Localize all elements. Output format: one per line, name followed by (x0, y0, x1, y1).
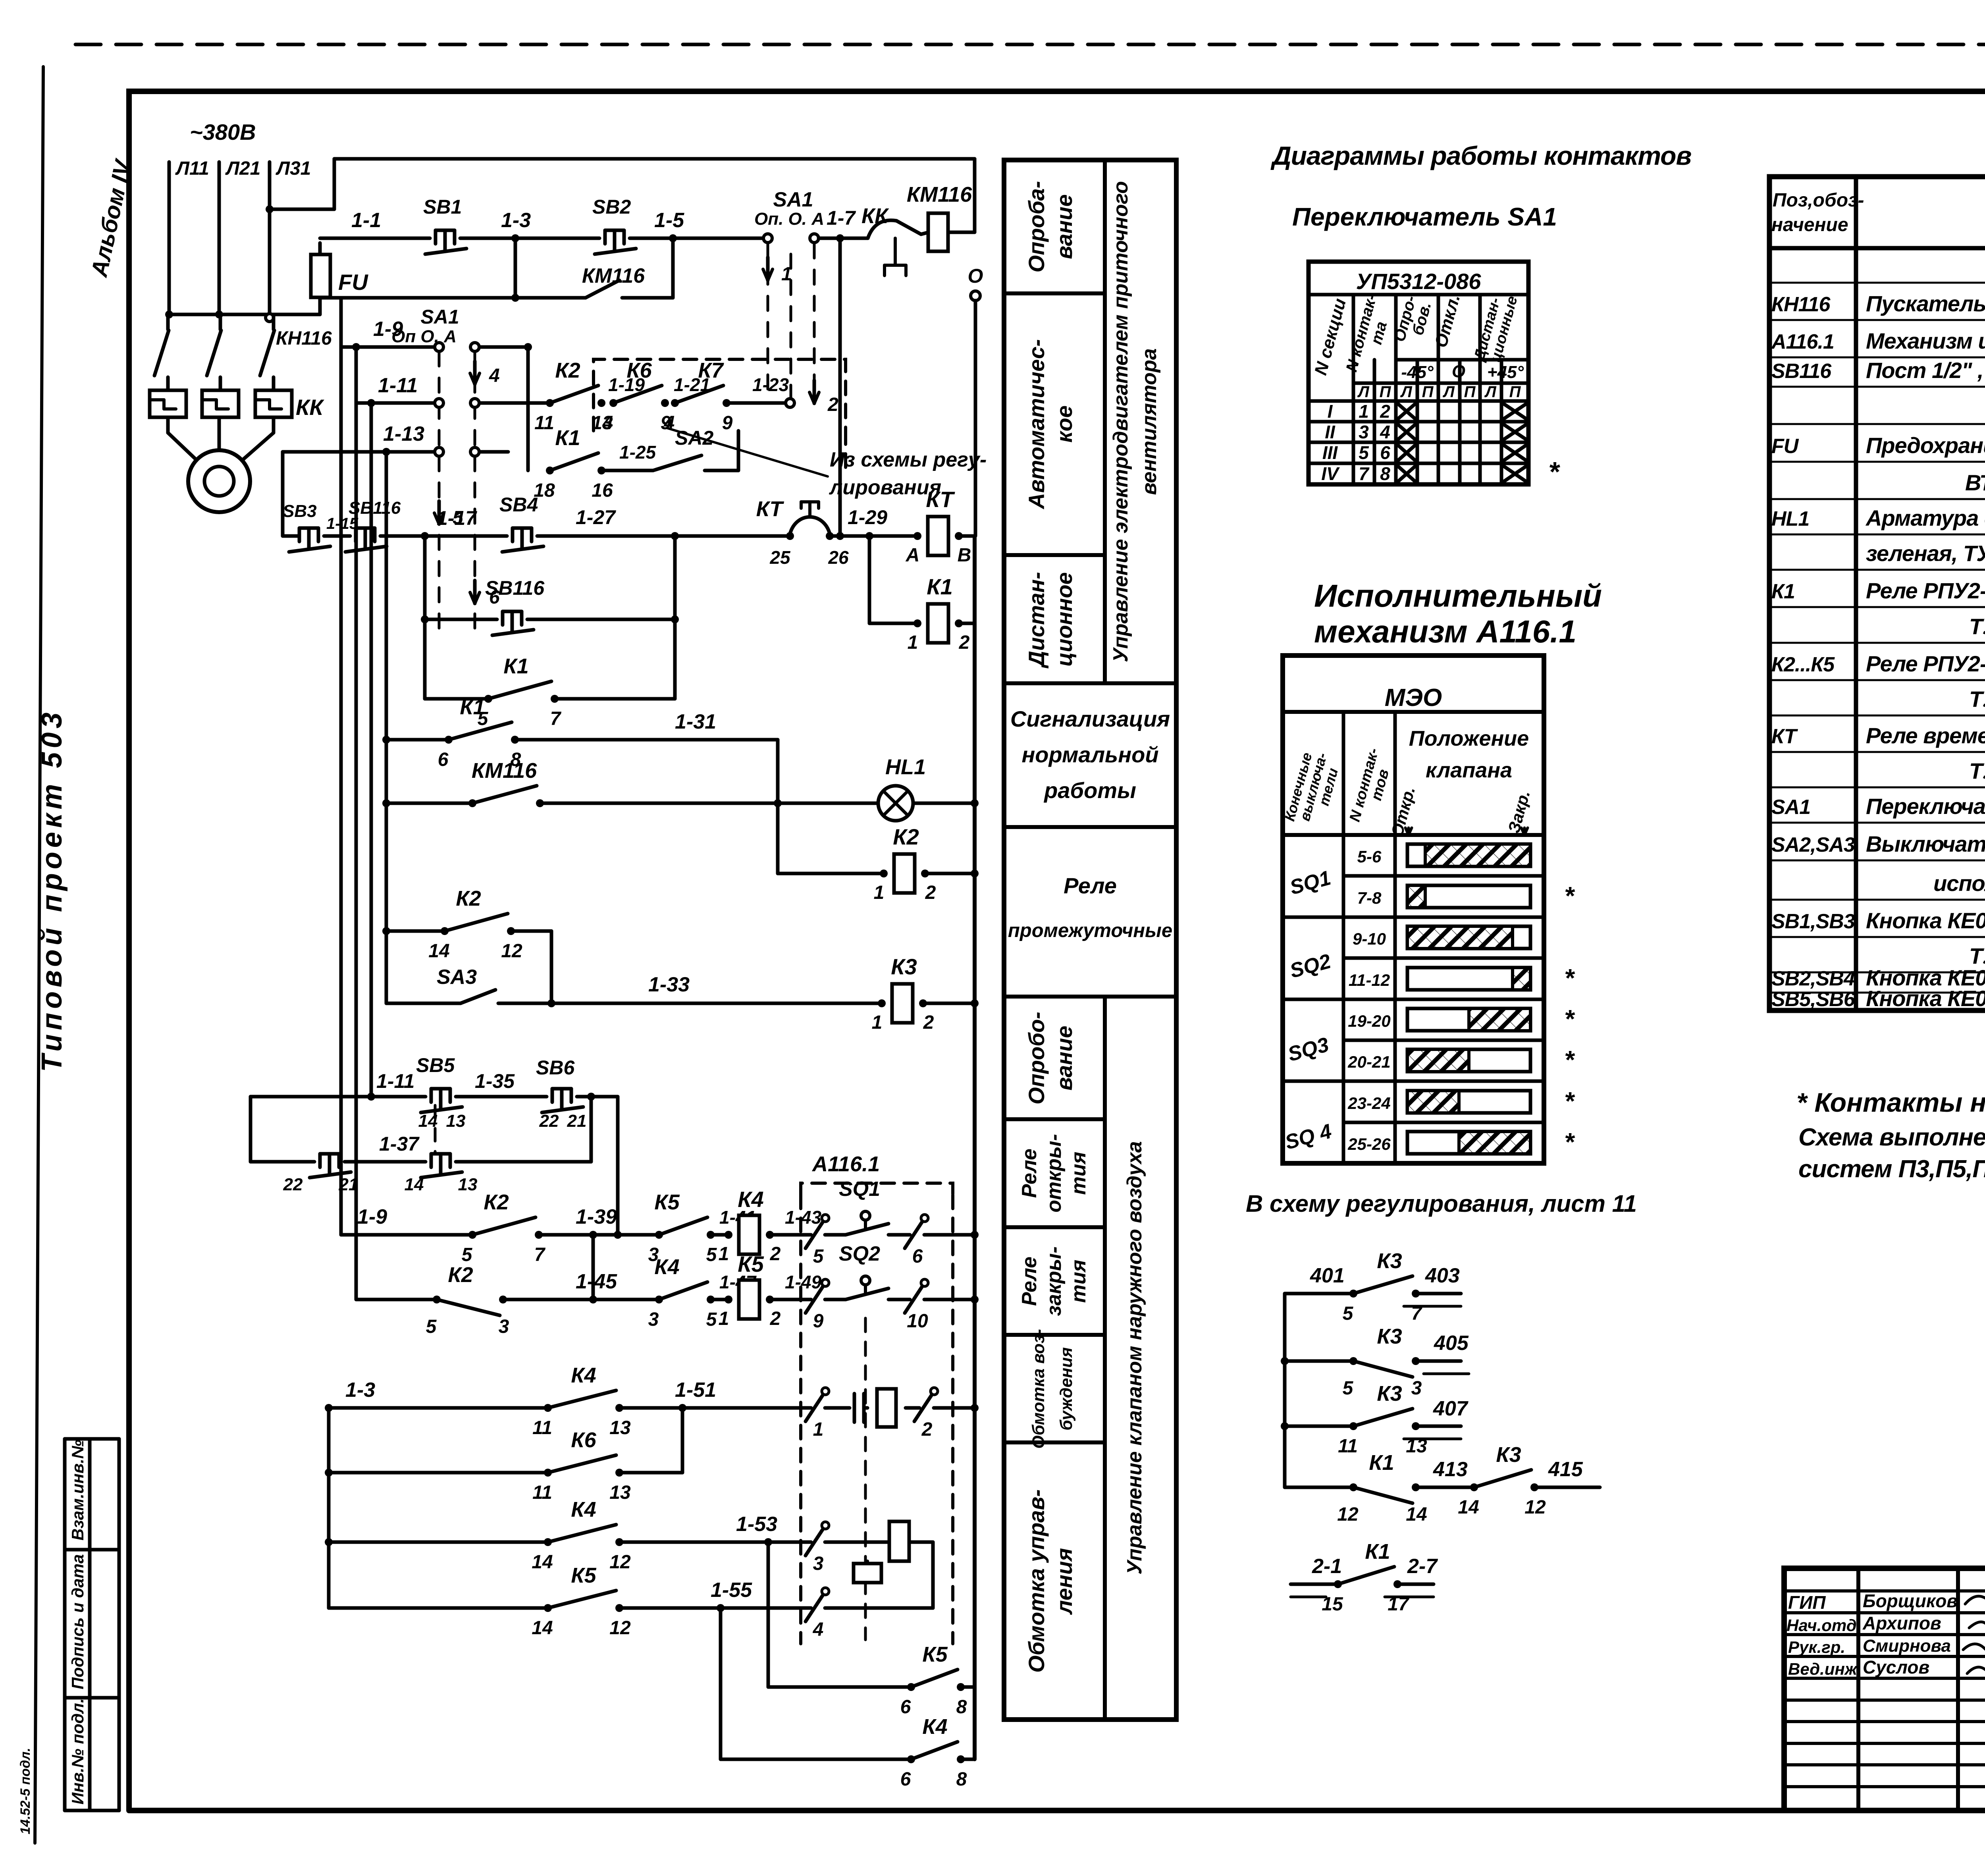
svg-text:1: 1 (908, 632, 918, 653)
svg-text:О: О (968, 265, 983, 287)
svg-text:14: 14 (1406, 1504, 1427, 1525)
svg-text:К4: К4 (738, 1187, 764, 1212)
svg-text:401: 401 (1310, 1264, 1345, 1287)
svg-text:Л: Л (1400, 383, 1413, 401)
svg-text:Типовой проект 503: Типовой проект 503 (36, 709, 68, 1072)
svg-text:407: 407 (1433, 1397, 1469, 1420)
svg-text:6: 6 (438, 749, 449, 770)
svg-text:К5: К5 (922, 1643, 948, 1666)
svg-text:*: * (1564, 964, 1575, 992)
svg-text:кое: кое (1052, 405, 1077, 443)
svg-text:1-3: 1-3 (345, 1379, 375, 1402)
svg-text:промежуточные: промежуточные (1008, 920, 1172, 941)
svg-text:К2...К5: К2...К5 (1771, 653, 1835, 676)
svg-text:КК: КК (861, 204, 889, 228)
svg-text:9-10: 9-10 (1353, 929, 1386, 948)
svg-text:К1: К1 (1771, 580, 1795, 603)
svg-text:SQ1: SQ1 (839, 1178, 880, 1201)
svg-text:2: 2 (923, 1012, 934, 1033)
svg-text:2: 2 (921, 1419, 933, 1440)
svg-text:Л21: Л21 (225, 158, 260, 179)
svg-text:Управление электродвигателем п: Управление электродвигателем приточного (1109, 181, 1132, 662)
svg-text:1-39: 1-39 (576, 1205, 617, 1228)
svg-text:начение: начение (1771, 214, 1848, 235)
svg-text:Управление клапаном наружного: Управление клапаном наружного воздуха (1123, 1141, 1146, 1575)
svg-text:МЭО: МЭО (1385, 684, 1442, 711)
svg-text:Л: Л (1442, 383, 1455, 401)
svg-text:А116.1: А116.1 (1771, 330, 1834, 353)
svg-text:1-31: 1-31 (675, 710, 716, 733)
svg-text:Обмотка управ-: Обмотка управ- (1024, 1489, 1049, 1673)
svg-text:Реле РПУ2-362023У3,~220В, 50Гц: Реле РПУ2-362023У3,~220В, 50Гц (1866, 651, 1985, 676)
svg-text:6: 6 (1380, 442, 1390, 463)
svg-text:16: 16 (592, 480, 613, 501)
svg-text:Дистан-: Дистан- (1024, 572, 1049, 668)
svg-text:5: 5 (706, 1244, 717, 1265)
svg-text:1-9: 1-9 (357, 1205, 387, 1228)
svg-text:К1: К1 (1369, 1451, 1394, 1475)
svg-text:КН116: КН116 (1771, 293, 1831, 316)
svg-text:*: * (1564, 881, 1575, 910)
svg-text:SВ5: SВ5 (416, 1054, 455, 1076)
svg-text:Борщиков: Борщиков (1863, 1591, 1958, 1611)
svg-text:1-37: 1-37 (379, 1133, 420, 1155)
svg-text:SА1: SА1 (1771, 796, 1810, 819)
svg-text:SА1: SА1 (420, 306, 459, 328)
svg-text:Положение: Положение (1409, 727, 1529, 750)
svg-text:11-12: 11-12 (1349, 971, 1390, 989)
svg-text:13: 13 (609, 1417, 631, 1438)
svg-text:*: * (1564, 1045, 1575, 1074)
svg-text:~380В: ~380В (190, 120, 256, 145)
svg-text:Переключатель УП5312-С86, ТУ16: Переключатель УП5312-С86, ТУ16-524.074-7… (1866, 794, 1985, 819)
svg-text:К3: К3 (1377, 1325, 1402, 1348)
svg-text:1: 1 (719, 1244, 729, 1265)
svg-text:14: 14 (428, 941, 449, 962)
svg-text:КМ116: КМ116 (472, 759, 537, 783)
svg-text:В схему регулирования, лист 11: В схему регулирования, лист 11 (1246, 1190, 1637, 1217)
svg-text:11: 11 (532, 1417, 552, 1438)
svg-text:К5: К5 (738, 1251, 764, 1276)
svg-text:зеленая, ТУ16-535.681-76: зеленая, ТУ16-535.681-76 (1866, 541, 1985, 566)
svg-text:*: * (1564, 1087, 1575, 1115)
svg-text:2: 2 (959, 632, 970, 653)
svg-text:5: 5 (1343, 1378, 1354, 1399)
svg-text:1-55: 1-55 (711, 1579, 752, 1602)
svg-text:А: А (906, 545, 920, 566)
svg-text:1-3: 1-3 (501, 209, 531, 232)
svg-text:5: 5 (813, 1246, 824, 1267)
svg-text:КН116: КН116 (276, 328, 332, 349)
svg-text:работы: работы (1043, 778, 1136, 803)
svg-text:Кнопка КЕ011У3,испол.5,толкате: Кнопка КЕ011У3,испол.5,толкатель красный (1866, 908, 1985, 933)
svg-text:SА1: SА1 (773, 188, 813, 211)
svg-text:3: 3 (499, 1316, 509, 1337)
svg-text:КТ: КТ (1771, 725, 1798, 748)
svg-text:4: 4 (1380, 422, 1390, 442)
svg-text:2-1: 2-1 (1312, 1555, 1342, 1578)
svg-text:1-45: 1-45 (576, 1270, 617, 1293)
svg-text:УП5312-086: УП5312-086 (1356, 269, 1482, 294)
svg-text:Вед.инж: Вед.инж (1788, 1660, 1858, 1678)
svg-text:Л: Л (1484, 383, 1497, 401)
svg-text:4: 4 (489, 365, 500, 386)
svg-text:1-25: 1-25 (619, 442, 656, 463)
svg-text:1: 1 (874, 882, 885, 903)
svg-text:5: 5 (462, 1244, 473, 1265)
svg-text:8: 8 (1380, 463, 1390, 484)
svg-text:19-20: 19-20 (1348, 1012, 1390, 1030)
svg-text:13: 13 (446, 1111, 466, 1131)
svg-text:К6: К6 (571, 1428, 596, 1452)
svg-text:2-7: 2-7 (1407, 1555, 1438, 1578)
svg-text:ТУ16-523,472-79: ТУ16-523,472-79 (1969, 758, 1985, 783)
svg-text:Исполнительный: Исполнительный (1314, 578, 1602, 613)
svg-text:1-11: 1-11 (376, 1070, 414, 1092)
svg-text:IV: IV (1321, 463, 1340, 484)
svg-text:10: 10 (907, 1311, 928, 1332)
svg-text:12: 12 (501, 941, 522, 962)
svg-text:SВ2,SВ4: SВ2,SВ4 (1771, 967, 1855, 990)
svg-text:КТ: КТ (756, 497, 784, 521)
svg-text:26: 26 (828, 547, 849, 568)
svg-text:К3: К3 (891, 954, 917, 979)
svg-text:К1: К1 (1365, 1540, 1390, 1564)
svg-text:6: 6 (900, 1769, 911, 1790)
svg-text:14: 14 (532, 1552, 553, 1573)
svg-text:ТУ16-526.407-79: ТУ16-526.407-79 (1969, 943, 1985, 968)
svg-text:лирования: лирования (829, 476, 941, 499)
svg-text:А116.1: А116.1 (811, 1152, 880, 1176)
svg-text:К2: К2 (484, 1190, 509, 1214)
svg-text:К5: К5 (654, 1190, 680, 1214)
svg-text:5: 5 (426, 1316, 437, 1337)
svg-text:403: 403 (1425, 1264, 1460, 1287)
svg-text:Из схемы регу-: Из схемы регу- (830, 448, 987, 471)
svg-text:клапана: клапана (1426, 758, 1512, 782)
svg-text:SВ2: SВ2 (592, 196, 631, 218)
svg-text:Суслов: Суслов (1863, 1657, 1929, 1677)
svg-text:КМ116: КМ116 (582, 264, 645, 287)
svg-text:1-1: 1-1 (351, 209, 381, 232)
svg-text:1-5: 1-5 (654, 209, 684, 232)
svg-text:1: 1 (1359, 401, 1369, 422)
svg-text:Реле времени РВП72-3122У4,~220: Реле времени РВП72-3122У4,~220В,8,8=3мин (1866, 723, 1985, 748)
svg-text:SА3: SА3 (437, 966, 477, 989)
svg-text:Л31: Л31 (276, 158, 311, 179)
svg-text:вание: вание (1052, 194, 1077, 259)
svg-text:2: 2 (770, 1308, 781, 1329)
svg-text:1-35: 1-35 (475, 1070, 515, 1092)
svg-text:1: 1 (781, 264, 792, 285)
svg-text:4: 4 (602, 413, 613, 434)
svg-text:5: 5 (1359, 442, 1369, 463)
svg-text:К1: К1 (555, 426, 580, 450)
svg-text:К2: К2 (555, 359, 580, 382)
svg-text:Поз,обоз-: Поз,обоз- (1773, 190, 1864, 211)
svg-text:Оп. О. А: Оп. О. А (754, 209, 824, 229)
svg-text:Диаграммы работы контактов: Диаграммы работы контактов (1270, 141, 1691, 170)
svg-text:22: 22 (283, 1175, 303, 1194)
svg-text:Автоматичес-: Автоматичес- (1024, 339, 1049, 510)
svg-text:К4: К4 (654, 1255, 679, 1279)
svg-text:ТУ16-523,331-78: ТУ16-523,331-78 (1969, 686, 1985, 711)
svg-text:7-8: 7-8 (1357, 889, 1382, 907)
svg-text:14: 14 (1458, 1497, 1479, 1518)
svg-text:К6: К6 (626, 359, 652, 382)
svg-text:вание: вание (1052, 1026, 1077, 1090)
svg-text:*: * (1548, 456, 1560, 487)
svg-text:К7: К7 (698, 359, 724, 382)
svg-text:1-11: 1-11 (378, 374, 418, 397)
svg-text:6: 6 (900, 1697, 911, 1718)
svg-text:2: 2 (827, 394, 838, 415)
svg-text:К5: К5 (571, 1564, 596, 1587)
svg-text:КК: КК (296, 395, 324, 420)
svg-text:механизм А116.1: механизм А116.1 (1314, 614, 1576, 649)
svg-text:2: 2 (1380, 401, 1390, 422)
svg-text:413: 413 (1433, 1458, 1468, 1481)
svg-text:22: 22 (539, 1111, 559, 1131)
svg-text:5-6: 5-6 (1357, 847, 1382, 866)
svg-text:14: 14 (405, 1175, 424, 1194)
svg-text:Кнопка КЕ011У3, испол.2, ТУ16-: Кнопка КЕ011У3, испол.2, ТУ16-526,407-79 (1866, 986, 1985, 1011)
svg-text:Реле: Реле (1064, 873, 1117, 898)
svg-text:Архипов: Архипов (1862, 1613, 1941, 1633)
svg-text:1-23: 1-23 (752, 374, 789, 395)
svg-text:7: 7 (1359, 463, 1370, 484)
svg-text:SВ1: SВ1 (423, 196, 462, 218)
svg-text:12: 12 (609, 1618, 631, 1639)
svg-text:Арматура светосигнальная АСЛ11: Арматура светосигнальная АСЛ11У2, (1865, 505, 1985, 530)
svg-text:закры-: закры- (1043, 1246, 1066, 1316)
svg-text:Опробо-: Опробо- (1024, 1012, 1049, 1105)
svg-text:Реле: Реле (1018, 1257, 1041, 1306)
svg-text:1-49: 1-49 (785, 1272, 821, 1292)
svg-text:* Контакты не используются: * Контакты не используются (1796, 1087, 1985, 1118)
svg-text:К3: К3 (1377, 1249, 1402, 1273)
svg-text:FU: FU (338, 270, 368, 295)
svg-text:Переключатель SА1: Переключатель SА1 (1292, 202, 1557, 231)
svg-text:К4: К4 (571, 1363, 596, 1387)
svg-text:+45°: +45° (1487, 362, 1524, 382)
svg-text:Обмотка воз-: Обмотка воз- (1029, 1329, 1048, 1448)
svg-text:1: 1 (719, 1308, 729, 1329)
svg-text:Сигнализация: Сигнализация (1010, 706, 1170, 731)
svg-text:III: III (1322, 442, 1338, 463)
svg-text:К4: К4 (571, 1498, 596, 1521)
svg-text:Смирнова: Смирнова (1863, 1636, 1951, 1656)
svg-text:1-43: 1-43 (785, 1207, 821, 1228)
svg-text:13: 13 (458, 1175, 478, 1194)
svg-text:7: 7 (550, 708, 562, 729)
svg-text:SВ4: SВ4 (499, 494, 538, 516)
svg-text:11: 11 (532, 1482, 552, 1503)
svg-text:1-27: 1-27 (576, 506, 616, 528)
svg-text:НL1: НL1 (1771, 507, 1809, 530)
svg-text:SВ6: SВ6 (536, 1057, 575, 1079)
svg-text:8: 8 (956, 1769, 967, 1790)
svg-text:К2: К2 (893, 824, 919, 849)
svg-text:1-7: 1-7 (827, 207, 856, 229)
svg-text:SА2: SА2 (675, 427, 713, 449)
svg-text:1-29: 1-29 (848, 506, 887, 528)
svg-text:21: 21 (339, 1175, 358, 1194)
svg-text:II: II (1325, 422, 1336, 442)
svg-text:*: * (1564, 1005, 1575, 1033)
svg-text:405: 405 (1434, 1332, 1469, 1355)
svg-text:К3: К3 (1496, 1443, 1521, 1467)
svg-text:П: П (1509, 383, 1521, 401)
svg-text:14: 14 (532, 1618, 553, 1639)
svg-text:SВ116: SВ116 (1771, 360, 1832, 383)
svg-text:Реле: Реле (1018, 1149, 1041, 1198)
svg-text:Пускатель магнитный: Пускатель магнитный (1866, 291, 1985, 316)
svg-text:К1: К1 (460, 695, 485, 719)
svg-text:3: 3 (648, 1309, 659, 1330)
svg-text:25: 25 (769, 547, 791, 568)
svg-text:Реле РПУ2-362223У3 ,~220В, 50: Реле РПУ2-362223У3 ,~220В, 50Гц (1866, 578, 1985, 603)
svg-text:В: В (958, 545, 971, 566)
svg-text:21: 21 (567, 1111, 587, 1131)
svg-text:SА2,SА3: SА2,SА3 (1771, 833, 1855, 856)
svg-text:тия: тия (1067, 1152, 1090, 1195)
svg-text:ТУ16-523,331-78: ТУ16-523,331-78 (1969, 614, 1985, 639)
svg-text:11: 11 (534, 413, 554, 434)
svg-text:-45°: -45° (1401, 362, 1434, 382)
svg-text:SQ2: SQ2 (839, 1242, 880, 1265)
svg-text:вентилятора: вентилятора (1138, 348, 1161, 495)
svg-text:FU: FU (1771, 435, 1799, 458)
svg-text:К1: К1 (503, 654, 528, 678)
svg-text:12: 12 (609, 1552, 631, 1573)
svg-text:9: 9 (813, 1311, 824, 1332)
svg-text:ВТФ6У3 , ТУ16-521.037-75: ВТФ6У3 , ТУ16-521.037-75 (1965, 470, 1985, 495)
svg-text:SВ3: SВ3 (283, 501, 317, 521)
svg-text:1-17: 1-17 (437, 507, 477, 529)
svg-text:5: 5 (706, 1309, 717, 1330)
svg-text:2: 2 (770, 1244, 781, 1265)
svg-text:НL1: НL1 (885, 755, 926, 779)
svg-text:20-21: 20-21 (1347, 1053, 1390, 1071)
svg-text:П: П (1464, 383, 1476, 401)
svg-text:К4: К4 (922, 1715, 947, 1739)
svg-text:9: 9 (722, 413, 733, 434)
svg-text:1-33: 1-33 (648, 973, 690, 996)
svg-text:К1: К1 (927, 574, 953, 599)
svg-text:6: 6 (912, 1246, 923, 1267)
svg-text:5: 5 (1343, 1303, 1354, 1324)
svg-text:КТ: КТ (926, 487, 955, 512)
svg-text:Подпись и дата: Подпись и дата (68, 1554, 87, 1689)
svg-text:исполI , ОСТ16,0526,001-77: исполI , ОСТ16,0526,001-77 (1933, 871, 1985, 896)
svg-text:SВ1,SВ3: SВ1,SВ3 (1771, 910, 1855, 933)
svg-text:ления: ления (1052, 1548, 1077, 1615)
svg-text:К3: К3 (1377, 1382, 1402, 1406)
svg-text:Нач.отд.: Нач.отд. (1786, 1616, 1861, 1635)
svg-text:415: 415 (1548, 1458, 1583, 1481)
svg-text:Механизм исполнительный МЭО: Механизм исполнительный МЭО (1866, 328, 1985, 353)
svg-text:П: П (1422, 383, 1434, 401)
svg-text:11: 11 (1338, 1436, 1358, 1457)
svg-text:7: 7 (534, 1244, 546, 1265)
svg-text:О: О (1452, 362, 1465, 381)
svg-text:Предохранитель ППТ-10 с плавко: Предохранитель ППТ-10 с плавкой вставкой (1866, 433, 1985, 458)
svg-text:4: 4 (813, 1619, 824, 1640)
svg-text:3: 3 (1411, 1378, 1422, 1399)
svg-text:1-53: 1-53 (736, 1513, 777, 1536)
svg-text:Взам.инв.№: Взам.инв.№ (68, 1440, 87, 1541)
svg-text:12: 12 (1337, 1504, 1359, 1525)
svg-text:25-26: 25-26 (1347, 1135, 1391, 1153)
svg-text:систем П3,П5,П6,П7,П9,П14... П: систем П3,П5,П6,П7,П9,П14... П18 она ана… (1798, 1155, 1985, 1183)
svg-text:нормальной: нормальной (1021, 742, 1158, 767)
svg-text:1: 1 (872, 1012, 883, 1033)
svg-text:буждения: буждения (1057, 1347, 1076, 1431)
svg-text:12: 12 (1524, 1497, 1546, 1518)
svg-text:К2: К2 (448, 1263, 473, 1287)
svg-text:Выключатель пакетный ПВ1-10У3: Выключатель пакетный ПВ1-10У3 , (1866, 831, 1985, 856)
svg-text:Пост 1/2" , ПКЕ712-2У3, ТУ16-5: Пост 1/2" , ПКЕ712-2У3, ТУ16-526.216-78 (1866, 358, 1985, 383)
svg-text:8: 8 (956, 1697, 967, 1718)
svg-text:П: П (1380, 383, 1391, 401)
svg-text:КМ116: КМ116 (907, 183, 972, 206)
svg-text:*: * (1564, 1128, 1575, 1156)
svg-text:К2: К2 (456, 887, 481, 910)
svg-text:Л: Л (1357, 383, 1370, 401)
svg-text:14.52-5 подл.: 14.52-5 подл. (18, 1748, 33, 1834)
svg-text:Схема выполнена для приточной: Схема выполнена для приточной системы П2… (1798, 1124, 1985, 1151)
svg-text:2: 2 (925, 882, 936, 903)
svg-text:1-9: 1-9 (373, 318, 403, 341)
svg-text:Опроба-: Опроба- (1024, 181, 1049, 273)
svg-text:ционное: ционное (1052, 572, 1077, 667)
svg-text:откры-: откры- (1043, 1134, 1066, 1213)
svg-text:Л11: Л11 (175, 158, 209, 179)
svg-text:Рук.гр.: Рук.гр. (1788, 1638, 1845, 1656)
svg-text:Инв.№ подл.: Инв.№ подл. (68, 1699, 87, 1805)
svg-text:3: 3 (813, 1553, 824, 1574)
svg-text:SВ116: SВ116 (485, 577, 545, 599)
svg-text:23-24: 23-24 (1347, 1094, 1390, 1112)
svg-text:3: 3 (1359, 422, 1369, 442)
svg-text:1-51: 1-51 (675, 1379, 716, 1402)
svg-text:13: 13 (609, 1482, 631, 1503)
svg-text:1: 1 (813, 1419, 824, 1440)
svg-text:I: I (1328, 401, 1333, 422)
svg-text:SВ5,SВ6: SВ5,SВ6 (1771, 988, 1856, 1011)
svg-text:ГИП: ГИП (1788, 1592, 1826, 1613)
svg-text:тия: тия (1067, 1260, 1090, 1303)
svg-text:1-13: 1-13 (383, 422, 424, 445)
